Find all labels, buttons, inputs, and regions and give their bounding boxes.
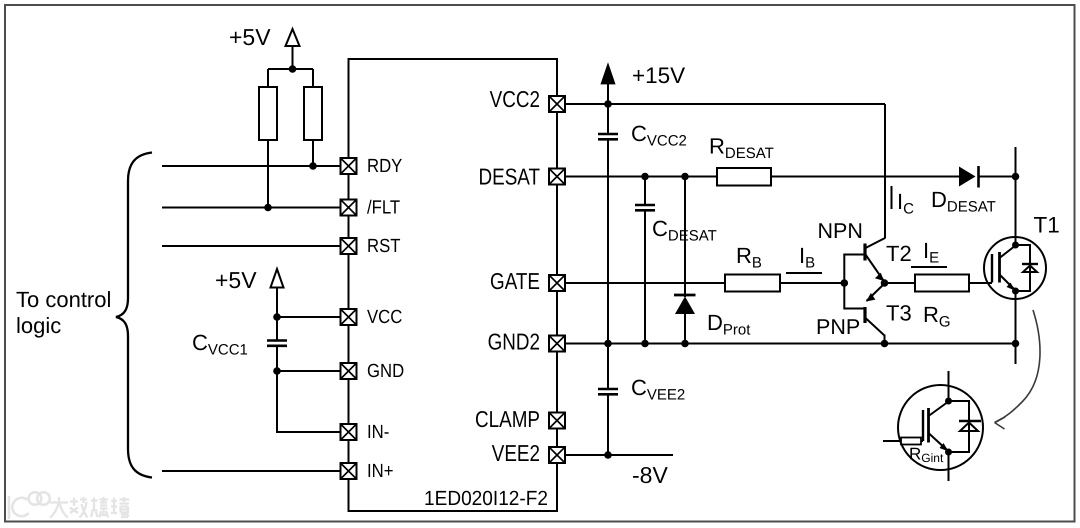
pin IN+ xyxy=(341,463,357,479)
pin IN- xyxy=(341,424,357,440)
svg-text:CLAMP: CLAMP xyxy=(475,406,540,432)
node PNP collector GND2 xyxy=(881,340,889,348)
wire CDESAT vertical xyxy=(644,177,646,206)
capacitor CVCC2 xyxy=(598,134,618,139)
node DProt/GND2 xyxy=(681,340,689,348)
pin RST xyxy=(341,238,357,254)
wire RG to T1 gate xyxy=(969,282,992,284)
wire +5V to VCC node xyxy=(276,288,278,318)
svg-text:+5V: +5V xyxy=(229,24,271,50)
+15V arrow filled xyxy=(601,64,615,85)
svg-text:RST: RST xyxy=(367,236,401,257)
node CDESAT/GND2 xyxy=(641,340,649,348)
svg-text:VCC2: VCC2 xyxy=(490,86,540,112)
resistor pullup right xyxy=(304,87,322,140)
wire arrow stub to rail xyxy=(292,46,294,69)
svg-text:1ED020I12-F2: 1ED020I12-F2 xyxy=(424,487,548,510)
wire DProt vertical top xyxy=(684,177,686,298)
svg-text:GND2: GND2 xyxy=(488,329,540,355)
wire T1 collector stub up xyxy=(1015,147,1017,177)
pin GND xyxy=(341,363,357,379)
wire GND2 row xyxy=(565,343,1016,345)
transistor PNP T3 xyxy=(865,284,885,344)
IGBT detail circle with RGint xyxy=(883,371,983,481)
resistor RB xyxy=(725,275,780,292)
resistor RDESAT xyxy=(717,168,771,186)
svg-text:+5V: +5V xyxy=(215,267,257,293)
wire DDESAT to T1 collector node xyxy=(979,176,1016,178)
node VCC xyxy=(273,313,281,321)
svg-text:DESAT: DESAT xyxy=(479,164,540,190)
wire VCC2 row xyxy=(565,103,885,105)
node VCC2/+15V xyxy=(604,100,612,108)
pin labels condensed xyxy=(367,156,404,482)
node DESAT/DProt xyxy=(681,173,689,181)
wire GATE row xyxy=(565,282,725,284)
svg-text:VCC: VCC xyxy=(367,307,402,328)
pin CLAMP xyxy=(549,413,565,429)
node right pullup on RDY xyxy=(309,162,317,170)
pin /FLT xyxy=(341,200,357,216)
wire RB to base node xyxy=(780,282,845,284)
svg-text:RDY: RDY xyxy=(367,156,403,177)
svg-text:IN-: IN- xyxy=(367,422,389,443)
svg-text:T3: T3 xyxy=(886,301,912,326)
capacitor CDESAT xyxy=(635,205,655,210)
brace xyxy=(116,153,152,478)
wire RDY xyxy=(162,165,341,167)
svg-text:PNP: PNP xyxy=(816,315,860,339)
diode DDESAT xyxy=(959,166,979,188)
node left pullup on /FLT xyxy=(264,204,272,212)
pin DESAT xyxy=(549,169,565,185)
wire +15V down to VCC2 row xyxy=(607,84,609,134)
node DESAT/CDESAT xyxy=(641,173,649,181)
+5V arrow (top) xyxy=(286,29,300,46)
wire left pullup down to /FLT xyxy=(267,140,269,208)
wire +5V rail xyxy=(268,68,313,70)
node 608 GND2 xyxy=(604,340,612,348)
wire RST xyxy=(162,245,341,247)
svg-text:GND: GND xyxy=(367,361,404,382)
node emitter junction xyxy=(881,279,889,287)
IC body 1ED020I12-F2 xyxy=(349,59,558,511)
label IC with bar xyxy=(891,186,893,209)
node DDESAT/T1 xyxy=(1012,173,1020,181)
wire GND node down to IN- xyxy=(277,371,341,432)
wire left pullup top stub xyxy=(267,69,269,87)
pin VEE2 xyxy=(549,447,565,463)
wire emitter node to RG xyxy=(885,282,916,284)
pin RDY xyxy=(341,158,357,174)
wire VEE2 row xyxy=(565,454,673,456)
watermark text xyxy=(50,497,129,518)
transistor NPN T2 xyxy=(865,238,885,282)
svg-text:NPN: NPN xyxy=(818,219,863,243)
node T1 emitter GND2 xyxy=(1012,340,1020,348)
svg-text:VEE2: VEE2 xyxy=(492,440,540,466)
node 608 VEE2 xyxy=(604,451,612,459)
node base junction xyxy=(841,279,849,287)
wire right pullup top stub xyxy=(312,69,314,87)
svg-text:GATE: GATE xyxy=(490,268,540,294)
pin GND2 xyxy=(549,336,565,352)
IGBT T1 xyxy=(984,177,1046,344)
svg-text:To control: To control xyxy=(16,287,111,312)
wire 608 cap to VEE2 row xyxy=(607,394,609,455)
svg-text:T2: T2 xyxy=(886,241,912,266)
pin GATE xyxy=(549,275,565,291)
curved arrow to detail view xyxy=(995,310,1041,429)
svg-text:+15V: +15V xyxy=(632,63,685,88)
diode DProt xyxy=(674,295,696,314)
transistor pair base bracket xyxy=(844,255,864,309)
resistor pullup left xyxy=(259,87,277,140)
wire VCC xyxy=(277,316,341,318)
wire /FLT xyxy=(162,207,341,209)
capacitor CVCC1 xyxy=(267,341,287,346)
watermark logo xyxy=(9,492,50,519)
wire mid vertical 608 xyxy=(607,139,609,389)
svg-text:-8V: -8V xyxy=(632,462,668,488)
pin VCC xyxy=(341,309,357,325)
+5V arrow (lower) xyxy=(271,269,284,288)
wire right pullup down to RDY xyxy=(312,140,314,166)
resistor RG xyxy=(915,275,969,292)
svg-text:logic: logic xyxy=(16,313,61,338)
pin VCC2 xyxy=(549,96,565,112)
capacitor CVEE2 xyxy=(598,389,618,394)
wire NPN collector to VCC2 xyxy=(884,104,886,239)
wire IN+ xyxy=(162,470,341,472)
wire T1 emitter stub down xyxy=(1015,344,1017,365)
node on +5V rail xyxy=(289,65,297,73)
wire DESAT row xyxy=(565,176,959,178)
node GND xyxy=(273,367,281,375)
svg-text:IN+: IN+ xyxy=(367,461,393,482)
svg-text:T1: T1 xyxy=(1034,213,1060,238)
svg-text:/FLT: /FLT xyxy=(367,198,400,219)
wire GND xyxy=(277,370,341,372)
